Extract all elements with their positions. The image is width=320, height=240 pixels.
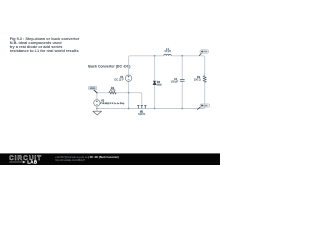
net flag 0V (bottom right) bbox=[197, 104, 209, 110]
label C1 bbox=[171, 77, 179, 83]
label V2 bbox=[100, 99, 124, 105]
label R1 bbox=[110, 86, 116, 92]
svg-text:100 Ω: 100 Ω bbox=[194, 78, 201, 82]
net flag Out (top right) bbox=[199, 50, 208, 56]
label D1 bbox=[157, 80, 162, 87]
svg-text:Buck Converter (DC -DC): Buck Converter (DC -DC) bbox=[88, 64, 130, 68]
wire: V1 top lead + top rail bbox=[129, 56, 205, 76]
wire: V2 top lead bbox=[96, 93, 98, 100]
svg-text:V2: V2 bbox=[101, 99, 105, 103]
net flag Gate bbox=[89, 86, 97, 92]
node: V1 minus / R1 right junction bbox=[128, 92, 130, 94]
svg-text:D1: D1 bbox=[157, 80, 161, 84]
label M1 bbox=[138, 110, 146, 116]
svg-text:47 Ω: 47 Ω bbox=[110, 88, 116, 92]
voltage source V1 bbox=[125, 75, 131, 81]
wire: D1 branch vertical bbox=[154, 56, 156, 109]
CircuitLab logo bbox=[9, 155, 42, 165]
footer text bbox=[55, 156, 119, 162]
svg-text:resistance to L1 for real worl: resistance to L1 for real world results bbox=[10, 48, 79, 53]
wire: gate node to R1 left bbox=[97, 92, 109, 94]
svg-text:10 µH: 10 µH bbox=[164, 50, 171, 53]
node: ground rail / C1 bottom junction bbox=[181, 108, 183, 110]
svg-text:NMOS: NMOS bbox=[138, 113, 146, 116]
node: C1 / output rail junction bbox=[181, 55, 183, 57]
transistor M1 (switch, gate bar + channel contacts) bbox=[137, 105, 146, 108]
label V1 bbox=[115, 75, 124, 82]
inductor L1 bbox=[164, 54, 171, 56]
svg-text:100 µF: 100 µF bbox=[171, 82, 179, 84]
figure caption text block bbox=[10, 36, 80, 53]
svg-text:DC 12 V: DC 12 V bbox=[115, 78, 124, 81]
node: ground rail / V2 return junction bbox=[96, 108, 98, 110]
wire: C1 branch vertical bbox=[181, 56, 183, 109]
node: D1 cathode / top rail junction bbox=[154, 55, 156, 57]
diode D1 bbox=[153, 81, 156, 85]
wire: V1 bottom lead bbox=[128, 81, 130, 108]
wire: V2 bottom lead to ground bbox=[96, 106, 98, 111]
node: ground rail / V1 return junction bbox=[128, 108, 130, 110]
wire: bottom ground rail + R2 bottom lead bbox=[97, 82, 205, 108]
svg-text:ideal: ideal bbox=[157, 85, 162, 87]
voltage source V2 bbox=[94, 100, 100, 106]
label R2 bbox=[194, 75, 201, 82]
resistor R1 bbox=[109, 91, 116, 94]
ground (triangle under V2) bbox=[93, 111, 102, 115]
resistor R2 bbox=[203, 76, 206, 82]
wire: R1 right to cross node and corner down to M1 bbox=[116, 93, 141, 105]
capacitor C1 bbox=[180, 80, 185, 82]
svg-text:LAB: LAB bbox=[27, 160, 38, 165]
footer bar bbox=[0, 153, 220, 165]
svg-text:PULSE(0 5 0 1u 1u 50u): PULSE(0 5 0 1u 1u 50u) bbox=[100, 103, 124, 105]
node: ground rail / D1 anode junction bbox=[154, 108, 156, 110]
svg-text:C1: C1 bbox=[174, 77, 178, 81]
label L1 bbox=[164, 48, 171, 53]
svg-text:http://circuitlab.com/c8kbd7: http://circuitlab.com/c8kbd7 bbox=[55, 159, 85, 162]
node Gate: V2 / R1 junction bbox=[96, 92, 98, 94]
